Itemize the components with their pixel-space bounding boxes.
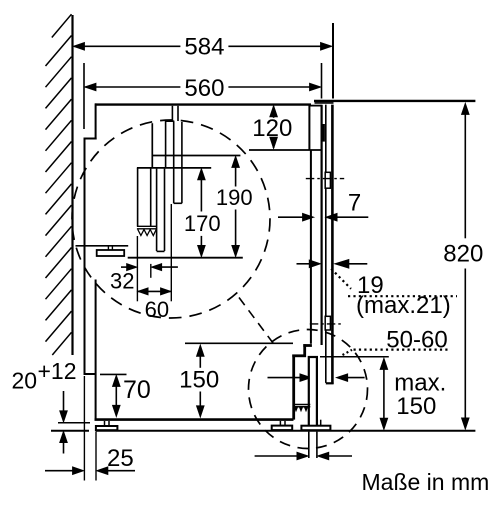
wall line detail: [151, 123, 153, 168]
hinge block: [322, 124, 325, 142]
svg-text:Maße in mm: Maße in mm: [362, 469, 490, 495]
machine outline left/rear: [84, 103, 97, 420]
svg-text:50-60: 50-60: [386, 326, 447, 353]
extension line right 584: [332, 23, 334, 99]
panel line A: [310, 150, 312, 344]
svg-text:60: 60: [145, 297, 169, 322]
furniture door front line D: [331, 105, 334, 384]
dimension 170: [184, 169, 221, 257]
dotted leader 50-60: [343, 350, 353, 355]
svg-text:70: 70: [123, 376, 151, 404]
detail circle upper (dashed): [72, 120, 270, 318]
dimension 560 line: [85, 75, 321, 102]
dimension 60: [138, 288, 171, 322]
dimension 32: [110, 236, 178, 301]
svg-text:25: 25: [107, 445, 134, 472]
dimension 70: [100, 374, 151, 416]
svg-text:20: 20: [12, 367, 38, 393]
svg-text:32: 32: [110, 269, 134, 294]
svg-text:150: 150: [179, 367, 219, 394]
svg-text:+12: +12: [38, 358, 77, 384]
cabinet panel rect upper: [309, 105, 321, 150]
furniture door rear line C: [325, 105, 327, 383]
dotted line under 19: [348, 295, 457, 297]
extension below tap: [170, 204, 172, 301]
dimension 7 gap: [278, 190, 368, 221]
mounting clip lower: [325, 316, 330, 330]
base line in detail: [128, 257, 243, 259]
hinge centerline lower: [310, 323, 344, 325]
panel line B: [321, 105, 323, 345]
hose holder: [137, 168, 157, 236]
water tap pipes: [165, 121, 182, 203]
extension line right 560: [321, 63, 323, 99]
rear foot: [96, 421, 118, 430]
countertop: [314, 100, 475, 102]
door bottom edge: [326, 382, 334, 384]
plinth-side foot: [301, 420, 330, 431]
level line 170: [137, 167, 211, 169]
leader line 50-60: [320, 356, 389, 358]
dimension 150 center: [179, 343, 293, 417]
machine front plinth recess steps: [292, 344, 312, 419]
machine bottom: [95, 418, 294, 421]
wall: [71, 15, 73, 355]
dimension 584 line: [73, 34, 331, 61]
hose stubs at machine top: [172, 106, 178, 121]
pipe width arrows: [255, 452, 352, 459]
detail circle lower (dashed): [249, 330, 368, 449]
svg-text:820: 820: [443, 241, 483, 268]
dimension 19 arrows: [297, 260, 368, 269]
plinth board: [309, 357, 317, 427]
machine bottom in detail: [76, 245, 129, 247]
adjustable zone sawtooth front: [293, 405, 311, 413]
niche lip: [315, 102, 334, 104]
machine top: [95, 103, 311, 105]
dashed connector between detail circles: [239, 298, 273, 344]
svg-text:150: 150: [396, 393, 436, 420]
dimension 190: [216, 156, 253, 256]
floor: [51, 430, 475, 432]
hinge centerline upper: [306, 178, 344, 180]
dimension max.150: [380, 358, 446, 429]
svg-text:(max.21): (max.21): [356, 292, 451, 319]
wall hatching: [46, 14, 72, 355]
dotted line under 50-60: [354, 349, 450, 351]
dimension 120: [249, 106, 321, 150]
svg-text:560: 560: [184, 75, 224, 102]
svg-text:7: 7: [348, 190, 361, 217]
drain hose: [157, 169, 165, 252]
plinth thickness arrows: [268, 374, 365, 381]
foot in detail: [97, 247, 125, 257]
dimension 20+12: [12, 358, 91, 454]
dotted leader 19: [331, 269, 351, 289]
svg-text:190: 190: [216, 185, 253, 210]
extension line left 560: [83, 63, 85, 129]
front foot: [272, 421, 293, 430]
dimension 820: [443, 103, 483, 429]
dimension 25: [45, 376, 135, 481]
svg-text:170: 170: [184, 211, 221, 236]
mounting clip upper: [325, 172, 330, 188]
drain pipe below floor: [309, 432, 317, 458]
svg-text:120: 120: [252, 115, 292, 142]
svg-text:584: 584: [184, 34, 224, 61]
level line 190: [152, 155, 241, 157]
